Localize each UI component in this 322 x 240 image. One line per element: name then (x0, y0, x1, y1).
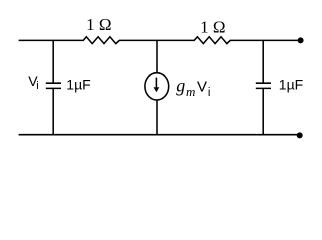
svg-text:m: m (186, 84, 195, 99)
svg-text:V: V (197, 78, 207, 95)
svg-text:g: g (176, 75, 185, 95)
svg-text:1µF: 1µF (279, 76, 303, 92)
svg-text:1 Ω: 1 Ω (86, 15, 111, 34)
svg-text:i: i (208, 87, 211, 99)
svg-text:i: i (36, 80, 38, 92)
svg-text:1µF: 1µF (66, 76, 90, 92)
svg-text:1 Ω: 1 Ω (200, 17, 225, 36)
